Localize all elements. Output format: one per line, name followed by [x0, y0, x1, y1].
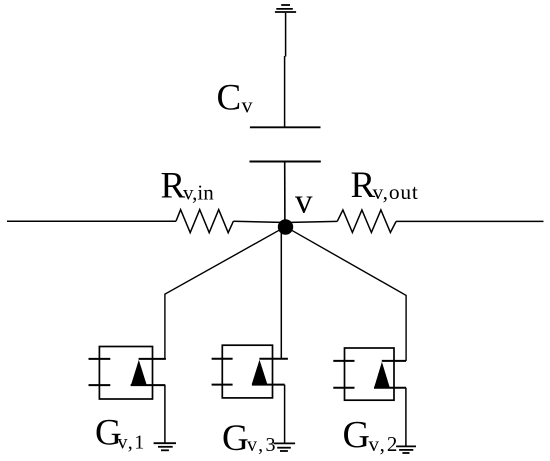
svg-text:R: R — [161, 166, 186, 207]
label Gv,1 — [95, 413, 146, 454]
wire Gv,3 to ground — [284, 385, 286, 444]
ground GND1 — [154, 443, 176, 450]
svg-text:v,1: v,1 — [118, 432, 146, 454]
wire Cv bottom plate to node v — [284, 162, 286, 228]
ground GND-top (inverted earth above Cv) — [275, 5, 296, 12]
node v (junction dot) — [278, 219, 293, 234]
wire Rv,in to node v — [233, 221, 286, 222]
svg-text:v: v — [295, 182, 313, 221]
transconductance source Gv,2 — [333, 348, 406, 400]
svg-text:G: G — [222, 418, 249, 459]
svg-text:v,3: v,3 — [247, 434, 278, 456]
wire output (right) — [396, 220, 543, 222]
svg-text:v,in: v,in — [183, 181, 214, 205]
svg-text:G: G — [343, 414, 370, 456]
wire Gv,2 to ground — [405, 388, 407, 447]
wire input (left) — [7, 220, 176, 222]
svg-text:v,out: v,out — [373, 180, 419, 204]
ground GND2 — [396, 446, 416, 453]
wire node v to Gv,1 (diagonal then vertical) — [165, 227, 286, 359]
resistor Rv,out — [337, 210, 396, 233]
ground GND3 — [274, 443, 296, 451]
svg-text:v,2: v,2 — [369, 432, 400, 456]
label Gv,2 — [343, 414, 400, 456]
svg-text:v: v — [242, 93, 253, 118]
label Rv,out — [351, 165, 419, 206]
wire Gv,1 to ground — [164, 385, 166, 443]
capacitor Cv (two plates) — [250, 127, 321, 161]
label Rv,in — [161, 166, 215, 207]
wire node v to Rv,out — [285, 221, 337, 222]
transconductance source Gv,3 — [212, 345, 288, 398]
wire node v to Gv,2 (diagonal then vertical) — [285, 227, 406, 361]
resistor Rv,in — [176, 210, 233, 233]
svg-text:C: C — [217, 78, 242, 119]
wire top ground to Cv top plate — [285, 13, 286, 128]
label Gv,3 — [222, 418, 278, 459]
wire node v to Gv,3 (vertical) — [280, 227, 282, 359]
label Cv — [217, 78, 253, 119]
transconductance source Gv,1 — [89, 347, 166, 400]
